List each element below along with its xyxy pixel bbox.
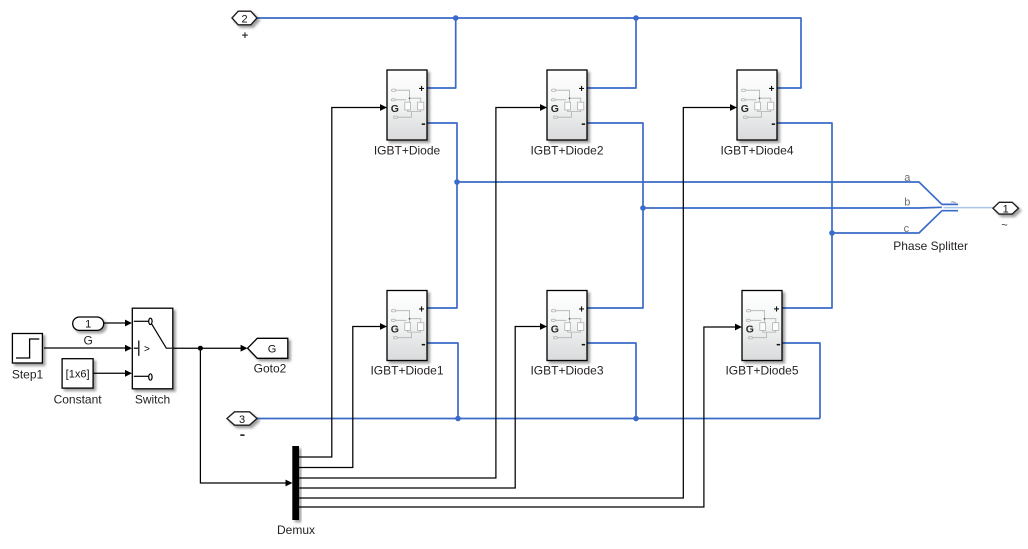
wire dc+ bus from port 2 — [257, 18, 958, 419]
wire dc- bus from port 3 — [257, 418, 820, 420]
junction switch output — [198, 346, 203, 351]
wire Switch branch to Demux — [200, 348, 286, 483]
wire Demux out4 to IGBT+Diode3 G — [299, 327, 541, 489]
arrowhead into Switch in3 — [125, 370, 132, 377]
arrowhead into Switch in1 — [125, 320, 132, 327]
svg-text:3: 3 — [239, 414, 245, 426]
arrowhead into Switch in2 — [125, 345, 132, 352]
svg-text:IGBT+Diode5: IGBT+Diode5 — [725, 364, 798, 378]
wire IGBT+Diode4 minus to phase c — [777, 123, 832, 233]
svg-text:Switch: Switch — [135, 393, 170, 407]
port 2 hexagon — [232, 11, 257, 25]
IGBT+Diode1 block — [387, 291, 427, 361]
svg-text:c: c — [904, 223, 910, 235]
wire Demux out2 to IGBT+Diode1 G — [299, 327, 381, 468]
svg-text:IGBT+Diode4: IGBT+Diode4 — [720, 144, 793, 158]
svg-text:IGBT+Diode2: IGBT+Diode2 — [530, 144, 603, 158]
junction dc- at x636 — [633, 416, 639, 422]
arrowhead into IGBT+Diode2 G — [540, 104, 547, 111]
svg-text:a: a — [904, 172, 911, 184]
Switch block — [132, 308, 173, 389]
Constant block — [62, 359, 93, 388]
IGBT+Diode block U1 — [387, 70, 427, 140]
IGBT+Diode5 block — [742, 291, 782, 361]
svg-text:~: ~ — [950, 197, 956, 209]
wire drop to IGBT+Diode plus — [427, 18, 456, 88]
wire splitter to port 1 (pale) — [944, 207, 994, 209]
svg-text:Demux: Demux — [277, 523, 315, 537]
svg-text:b: b — [904, 197, 910, 209]
wire IGBT+Diode5 minus to dc- bus — [782, 343, 820, 419]
Demux block — [292, 446, 299, 520]
port 1 hexagon — [993, 202, 1018, 214]
svg-text:1: 1 — [1003, 203, 1009, 215]
wire Demux out5 to IGBT+Diode4 G — [299, 108, 731, 499]
junction dc- at x458 — [455, 416, 461, 422]
wire phase b line — [643, 206, 942, 209]
wire port G(1) to Switch — [104, 322, 126, 324]
black control wires — [44, 108, 736, 508]
junction phase a — [454, 179, 460, 185]
wire IGBT+Diode1 minus to dc- bus — [427, 343, 458, 419]
arrowhead into IGBT+Diode3 G — [540, 323, 547, 330]
wire Demux out6 to IGBT+Diode5 G — [299, 327, 736, 507]
IGBT+Diode4 block — [737, 70, 777, 140]
svg-text:Step1: Step1 — [12, 368, 44, 382]
input port G oval — [73, 317, 104, 330]
wire Constant to Switch — [93, 372, 126, 374]
svg-text:+: + — [242, 30, 248, 42]
junction dc+ at x455 — [453, 15, 459, 21]
junction phase b — [640, 205, 646, 211]
wire drop to IGBT+Diode2 plus — [587, 18, 636, 88]
svg-text:Goto2: Goto2 — [254, 362, 287, 376]
arrowhead into Goto2 — [241, 345, 248, 352]
wire Step1 to Switch — [44, 347, 126, 349]
Goto2 block — [248, 338, 288, 358]
junction phase c — [829, 230, 835, 236]
wire phase b to IGBT+Diode3 plus — [587, 208, 643, 308]
svg-text:G: G — [268, 343, 277, 355]
svg-text:2: 2 — [241, 13, 247, 25]
wire phase c to IGBT+Diode5 plus — [782, 233, 832, 308]
junction dc+ at x636 — [633, 15, 639, 21]
svg-text:~: ~ — [1001, 220, 1007, 232]
arrowhead into Demux — [286, 480, 293, 487]
svg-text:IGBT+Diode3: IGBT+Diode3 — [530, 364, 603, 378]
wire phase a to IGBT+Diode1 plus — [427, 182, 457, 308]
wire IGBT+Diode2 minus to phase b — [587, 123, 643, 208]
IGBT+Diode3 block — [547, 291, 587, 361]
wire IGBT+Diode minus to phase a — [427, 123, 457, 182]
arrowhead into IGBT+Diode4 G — [730, 104, 737, 111]
phase splitter double bar — [942, 204, 958, 210]
IGBT+Diode2 block — [547, 70, 587, 140]
svg-text:1: 1 — [85, 319, 91, 331]
port 3 hexagon — [227, 412, 257, 425]
wire IGBT+Diode3 minus to dc- bus — [587, 343, 636, 419]
arrowhead into IGBT+Diode5 G — [735, 324, 742, 331]
svg-text:IGBT+Diode1: IGBT+Diode1 — [370, 364, 443, 378]
svg-text:G: G — [84, 334, 93, 348]
wire Switch to Goto2 — [173, 347, 242, 349]
arrowhead into IGBT+Diode G — [380, 104, 387, 111]
wire phase c line — [832, 211, 942, 233]
svg-text:Phase Splitter: Phase Splitter — [893, 239, 968, 253]
Step1 block — [12, 334, 42, 364]
svg-text:[1x6]: [1x6] — [66, 368, 90, 380]
label - under port 3 — [240, 434, 244, 436]
wire Demux out3 to IGBT+Diode2 G — [299, 108, 541, 479]
wire phase a line — [457, 182, 942, 204]
arrowhead into IGBT+Diode1 G — [380, 323, 387, 330]
svg-text:>: > — [144, 344, 150, 355]
wire Demux out1 to IGBT+Diode G — [299, 108, 381, 458]
svg-text:Constant: Constant — [54, 393, 103, 407]
svg-text:IGBT+Diode: IGBT+Diode — [374, 144, 441, 158]
